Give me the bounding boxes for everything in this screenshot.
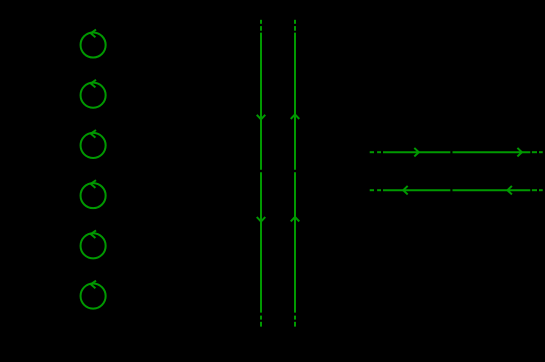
arrowhead left (horiz line 2, right) (507, 186, 512, 195)
circulation loop 6 (counterclockwise arrow) (81, 281, 106, 309)
arrowhead right (horiz line 1, right) (517, 148, 522, 157)
arrowhead down (line 1, lower) (257, 217, 266, 222)
arrowhead up (line 2, lower) (291, 217, 300, 222)
circulation loop 4 (counterclockwise arrow) (81, 180, 106, 208)
circulation loop 2 (counterclockwise arrow) (81, 80, 106, 108)
horizontal field line 2 (bottom), leftward, dashed ends (370, 189, 543, 191)
circulation loop 5 (counterclockwise arrow) (81, 230, 106, 258)
arrowhead down (line 1, upper) (257, 115, 266, 120)
circulation loop 1 (counterclockwise arrow) (81, 30, 106, 58)
arrowhead left (horiz line 2, left) (403, 186, 408, 195)
arrowhead up (line 2, upper) (291, 114, 300, 119)
horizontal field line 1 (top), rightward, dashed ends (370, 151, 543, 153)
arrowhead right (horiz line 1, left) (414, 148, 419, 157)
vertical field line 1 (left), downward, dashed ends (260, 20, 262, 327)
vertical field line 2 (right), upward, dashed ends (294, 20, 296, 327)
circulation loop 3 (counterclockwise arrow) (81, 130, 106, 158)
